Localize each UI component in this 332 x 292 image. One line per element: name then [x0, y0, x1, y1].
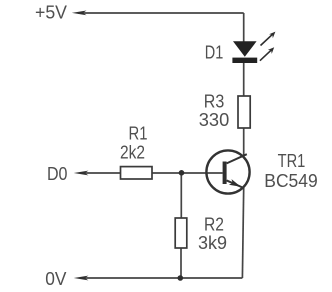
svg-text:0V: 0V [45, 268, 67, 289]
resistor R2 body [175, 218, 187, 248]
wire +5V top rail [78, 12, 244, 14]
wire top vertical to LED anode [243, 13, 245, 42]
arrow D0 (left pointing) [74, 171, 89, 176]
LED D1 light arrow lower [260, 47, 274, 61]
arrow +5V (left pointing) [72, 11, 87, 16]
svg-text:2k2: 2k2 [120, 142, 145, 163]
node junction dot base [179, 170, 185, 176]
transistor TR1 collector diagonal [227, 154, 247, 163]
wire R1 to base node to transistor base [152, 172, 223, 174]
svg-text:BC549: BC549 [264, 170, 317, 191]
svg-text:+5V: +5V [35, 1, 68, 22]
wire base node down to R2 [180, 173, 182, 218]
LED D1 triangle (anode) [233, 41, 257, 57]
wire emitter vertical down to 0V rail [242, 188, 243, 278]
wire 0V bottom rail [80, 277, 242, 279]
wire LED cathode to R3 [243, 63, 245, 96]
svg-text:3k9: 3k9 [198, 232, 227, 253]
svg-text:D0: D0 [47, 163, 68, 184]
wire R2 to 0V rail [180, 248, 182, 278]
wire R3 to collector junction [243, 128, 245, 156]
resistor R1 body [121, 167, 153, 179]
LED D1 cathode bar [232, 58, 257, 63]
svg-text:D1: D1 [205, 41, 224, 62]
transistor TR1 emitter arrowhead [229, 179, 241, 187]
transistor TR1 base bar [223, 162, 227, 185]
svg-text:R1: R1 [129, 123, 148, 144]
wire D0 lead to R1 [80, 172, 121, 174]
transistor TR1 circle [206, 150, 249, 193]
LED D1 light arrow upper [261, 32, 276, 46]
arrow 0V (left pointing) [74, 276, 89, 281]
svg-text:TR1: TR1 [278, 150, 306, 171]
transistor TR1 emitter diagonal [227, 180, 244, 188]
svg-text:330: 330 [199, 109, 230, 130]
resistor R3 body [238, 96, 250, 128]
node junction dot 0V rail [178, 275, 184, 281]
